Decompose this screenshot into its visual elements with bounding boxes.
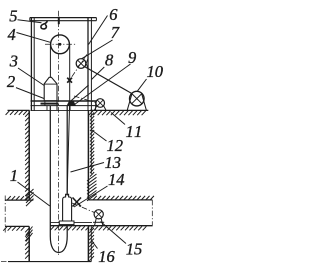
svg-text:7: 7 [111, 23, 120, 42]
svg-text:3: 3 [9, 52, 18, 71]
svg-text:6: 6 [109, 5, 118, 24]
svg-text:14: 14 [108, 170, 125, 189]
svg-text:5: 5 [9, 6, 17, 25]
svg-text:2: 2 [7, 72, 15, 91]
svg-text:11: 11 [126, 122, 144, 141]
svg-text:15: 15 [126, 240, 143, 259]
svg-text:9: 9 [128, 48, 136, 67]
svg-text:16: 16 [98, 247, 115, 266]
svg-text:4: 4 [8, 25, 16, 44]
svg-text:10: 10 [147, 62, 164, 81]
svg-text:1: 1 [10, 166, 18, 185]
svg-text:8: 8 [105, 51, 114, 70]
